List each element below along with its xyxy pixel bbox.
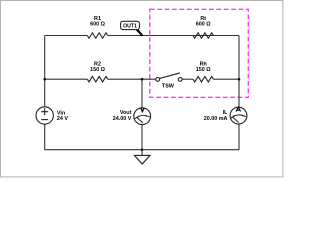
wire: voltmeter branch upper xyxy=(141,79,143,108)
wire: right rail lower segment xyxy=(238,124,240,150)
voltmeter gauge tick xyxy=(138,115,147,117)
junction node at ground / bottom rail xyxy=(141,148,144,151)
source Vin circle xyxy=(36,107,53,124)
junction node at right rail / Rh row xyxy=(238,78,241,81)
ammeter IL circle xyxy=(230,107,247,124)
svg-text:150 Ω: 150 Ω xyxy=(90,67,105,73)
wire: voltmeter branch lower xyxy=(141,125,143,150)
resistor R1 600ohm xyxy=(87,33,107,39)
wire: left rail lower segment xyxy=(44,124,46,150)
svg-text:20.00 mA: 20.00 mA xyxy=(204,116,228,122)
junction node at left rail / R2 row xyxy=(43,78,46,81)
ground triangle xyxy=(134,155,150,164)
svg-text:150 Ω: 150 Ω xyxy=(196,67,211,73)
wire: switch right contact to Rh xyxy=(182,78,193,80)
svg-text:OUT1: OUT1 xyxy=(123,23,137,29)
ground stub xyxy=(141,150,143,156)
wire: bottom rail xyxy=(45,149,239,151)
resistor Rh 150ohm xyxy=(193,76,213,82)
junction node at voltmeter branch / R2 row xyxy=(141,78,144,81)
net label OUT1 callout pointer xyxy=(135,29,144,36)
wire: Rh to right rail xyxy=(213,78,239,80)
wire: R1 to right rail corner xyxy=(108,35,239,37)
voltmeter V letter xyxy=(141,108,144,112)
switch TSW lever xyxy=(160,73,180,79)
wire: R2 to switch left contact xyxy=(108,78,156,80)
svg-text:600 Ω: 600 Ω xyxy=(196,21,211,27)
svg-text:24.00 V: 24.00 V xyxy=(113,116,132,122)
ammeter gauge arc xyxy=(230,115,246,119)
voltmeter gauge arc xyxy=(135,115,151,119)
switch TSW left contact xyxy=(156,78,160,82)
voltmeter needle xyxy=(136,117,143,123)
resistor Rt 600ohm xyxy=(193,33,213,39)
Vin plus sign xyxy=(41,108,48,115)
switch TSW right contact xyxy=(178,78,182,82)
ammeter needle xyxy=(232,117,239,123)
wire: right rail upper segment xyxy=(238,36,240,108)
voltmeter Vout circle xyxy=(134,108,151,125)
wire top-left: left rail top corner to R1 xyxy=(45,35,88,37)
ammeter gauge tick xyxy=(234,115,243,117)
ammeter A letter xyxy=(236,107,241,111)
svg-text:24 V: 24 V xyxy=(57,116,68,122)
net label OUT1 box xyxy=(121,21,140,29)
wire: left rail upper segment xyxy=(44,36,46,107)
svg-text:600 Ω: 600 Ω xyxy=(90,21,105,27)
Vin minus sign xyxy=(41,119,48,121)
wire: middle row left rail to R2 xyxy=(45,78,88,80)
resistor R2 150ohm xyxy=(87,76,107,82)
svg-text:TSW: TSW xyxy=(162,84,175,90)
thevenin equivalent highlight box (pink dashed) xyxy=(150,9,249,97)
